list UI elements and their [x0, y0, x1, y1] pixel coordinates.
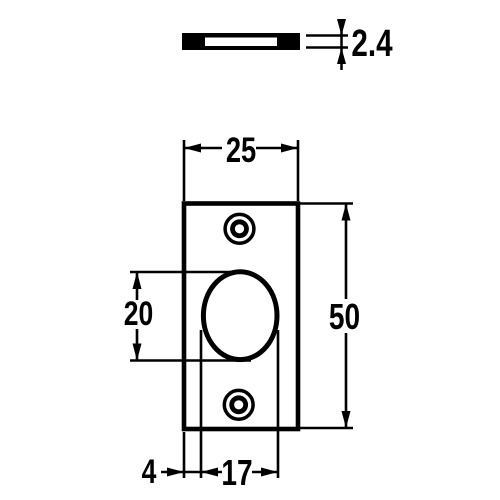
label 4	[142, 453, 157, 491]
dimension 25: left extension line	[183, 140, 186, 201]
dimension 17: line right segment	[252, 471, 278, 474]
svg-text:25: 25	[226, 131, 256, 170]
extension line bottom of bar	[306, 46, 348, 49]
svg-text:2.4: 2.4	[351, 23, 392, 65]
dimension 4-17 connecting segment	[184, 471, 222, 474]
screw hole top inner ring	[230, 219, 249, 238]
svg-text:4: 4	[142, 453, 157, 491]
side view plate bar	[182, 33, 300, 50]
dimension 20: bottom extension line	[130, 359, 251, 362]
label 25	[226, 131, 256, 170]
dimension 50: bottom arrow	[342, 411, 351, 428]
dimension 20: top extension line	[130, 271, 234, 274]
dimension 25: left arrow	[184, 144, 201, 153]
dimension 50: line upper segment	[345, 204, 348, 300]
dimension 4: arrow	[167, 468, 184, 477]
svg-text:50: 50	[329, 297, 360, 337]
oblong hole	[203, 272, 277, 360]
arrow up to bar bottom	[337, 48, 346, 65]
dimension 25: line right segment	[256, 147, 298, 150]
label 17	[221, 453, 252, 493]
label 20	[124, 295, 154, 333]
dimension 20: line lower segment	[136, 329, 139, 361]
arrow down to bar top	[337, 19, 346, 36]
dimension 50: top arrow	[342, 204, 351, 221]
screw hole bottom inner ring	[229, 395, 248, 414]
dimension 25: line left segment	[184, 147, 222, 150]
plate front view outline	[184, 204, 298, 430]
dimension 4: arrow line	[161, 471, 184, 474]
label 50	[329, 297, 360, 337]
dimension 17/4: oblong right extension line	[277, 330, 280, 478]
screw hole top outer circle	[225, 214, 254, 243]
dimension 20: line upper segment	[136, 272, 139, 300]
screw hole bottom outer circle	[224, 390, 253, 419]
dimension 17/4: left extension line (plate edge)	[183, 432, 186, 478]
dimension 25: right arrow	[281, 144, 298, 153]
dimension 17/4: oblong left extension line	[200, 330, 203, 478]
extension line top of bar	[306, 34, 348, 37]
dimension line 2.4 vertical	[340, 19, 343, 70]
dimension 20: top arrow	[133, 272, 142, 289]
svg-text:17: 17	[221, 453, 252, 493]
label 2.4	[351, 23, 392, 65]
dimension 50: line lower segment	[345, 333, 348, 428]
dimension 17: right arrow	[261, 468, 278, 477]
dimension 17: left arrow	[201, 468, 218, 477]
svg-text:20: 20	[124, 295, 154, 333]
dimension 50: top extension line	[300, 202, 353, 205]
dimension 20: bottom arrow	[133, 344, 142, 361]
dimension 25: right extension line	[297, 140, 300, 201]
dimension 50: bottom extension line	[300, 427, 353, 430]
